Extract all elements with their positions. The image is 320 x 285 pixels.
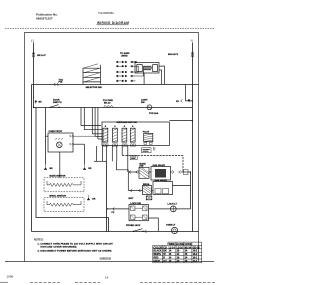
wire bottom left riser [36,108,109,218]
svg-text:SURFACE UNIT SW: SURFACE UNIT SW [117,121,138,124]
svg-text:SWITCH: SWITCH [53,102,62,104]
svg-text:MOT: MOT [129,198,135,200]
wire igniter to valve [149,171,151,173]
svg-text:P3: P3 [112,212,115,214]
svg-text:OVEN TSTAT: OVEN TSTAT [49,130,63,133]
bake gas valve box [151,167,171,181]
thermostat contacts [55,138,63,139]
svg-text:BK: BK [50,168,54,170]
svg-text:GAS VALVE: GAS VALVE [155,179,168,182]
fuse symbol L1 [32,52,35,54]
selector contact row 5 [117,80,136,82]
selector contact row 1 [117,61,137,63]
wire feed row1 [117,161,129,172]
wire tstat down left [59,152,61,178]
svg-text:LOCK LT: LOCK LT [168,203,178,205]
svg-text:SELECTOR SW.: SELECTOR SW. [86,87,103,89]
svg-text:5995371227: 5995371227 [36,16,53,20]
svg-text:UNITS: UNITS [121,55,128,57]
svg-text:IGN: IGN [140,166,144,168]
bottom scan marks [0,281,8,283]
svg-text:2. DISCONNECT POWER BEFORE SE: 2. DISCONNECT POWER BEFORE SERVICING UNI… [38,249,113,252]
wire lock to light [149,208,191,210]
broil igniter row wire [128,190,142,192]
svg-text:TOD 20A: TOD 20A [149,112,159,115]
oven control EOC box [135,63,159,74]
wire riser to bottom bus [108,218,110,232]
probe switch on bottom wire [133,231,134,232]
wire L1 supply [33,43,35,108]
connector P1 on W1 [54,83,59,86]
oven selector switch bank [83,64,101,85]
broil gas valve box [153,182,173,195]
broil element coil [47,203,81,206]
wire W1 top horizontal [32,84,199,86]
svg-text:GY: GY [163,260,167,263]
plug arrow on W2 left [35,100,37,103]
comb wires below surface switch [96,146,98,161]
wire drop left A [81,107,101,125]
diagram border frame [25,33,199,262]
svg-text:NOTES:: NOTES: [34,239,44,242]
svg-text:GRAY: GRAY [153,260,160,263]
connector pair [129,171,138,174]
connector label box A [130,156,137,160]
svg-text:1096: 1096 [7,274,14,278]
door switch on W2 [50,107,51,108]
surface unit switch box [102,122,169,146]
selector contact row 3 [117,66,139,73]
infinite switch 1 [103,126,108,147]
left drop bus [106,162,108,232]
broil element dashed box [44,198,84,212]
wire drop left B [84,107,102,129]
svg-text:PROBE JACK: PROBE JACK [126,224,141,227]
svg-text:OR: OR [88,168,92,170]
wire drops to surface switch [91,107,93,134]
left bus wire [31,85,33,232]
connector label box B [142,148,152,153]
connector on lock row [113,207,115,210]
svg-text:OVEN LT: OVEN LT [166,224,176,226]
wire N supply [192,43,194,232]
svg-text:SW: SW [141,102,145,104]
svg-text:BROIL IGNITOR: BROIL IGNITOR [50,195,67,197]
infinite switch 2 [113,126,118,147]
wire contacts to EOC [143,66,145,76]
footer rule [5,261,214,263]
connector pair [130,189,141,192]
thermostat bulb [57,142,63,148]
svg-text:WIRING DIAGRAM: WIRING DIAGRAM [97,21,129,25]
wire w2 into tstat [45,108,47,165]
wire lock box to bottom [149,218,159,231]
svg-text:BK: BK [39,102,43,104]
svg-text:BROIL: BROIL [143,184,150,186]
header rule [5,27,214,29]
svg-text:BAKE IGNITOR: BAKE IGNITOR [50,175,66,178]
connector on branch [181,99,183,102]
svg-text:BK-14 P: BK-14 P [37,54,46,57]
lock row wire [108,208,130,210]
svg-text:LOCK SW: LOCK SW [131,203,142,205]
svg-text:GAS VALVE: GAS VALVE [153,164,166,167]
selector contact row 4 [117,75,144,77]
wire W2 horizontal [34,107,193,109]
svg-text:N1: N1 [176,101,180,103]
svg-text:HIGH AND COVER GROUNDED.: HIGH AND COVER GROUNDED. [41,246,78,249]
bake igniter [139,167,149,178]
broil igniter [143,186,152,195]
wire tstat down right [84,144,86,165]
connector right of valve [172,171,181,174]
thermostat terminals [70,135,74,137]
wire color table [153,242,202,263]
svg-text:BK-14: BK-14 [104,102,111,105]
connector P2 on W2 [104,105,114,107]
svg-text:L1: L1 [31,39,35,43]
wire EOC to N bus [159,66,164,84]
bake element dashed box [44,178,84,192]
svg-text:OR: OR [92,198,96,200]
svg-text:14: 14 [105,275,109,279]
infinite switch 3 [122,126,127,147]
infinite switch 4 [130,126,135,147]
wire EOC down [143,73,145,84]
broil plug arrow [87,195,90,200]
svg-text:1. CONNECT OVEN FRAME TO 120: 1. CONNECT OVEN FRAME TO 120 VOLT SUPPLY… [38,242,114,245]
wire feed row2 [127,172,129,191]
svg-text:318053110: 318053110 [100,258,112,261]
wire to igniter row [122,156,183,173]
svg-text:P18: P18 [59,82,64,84]
svg-text:14-1: 14-1 [193,260,198,263]
svg-text:WH-14 P2: WH-14 P2 [168,53,179,56]
bake igniter row wire [128,171,139,173]
oven thermostat box [48,133,73,152]
svg-text:TGF362BCBA: TGF362BCBA [98,12,114,15]
fuse symbol N [191,52,194,54]
TOD on W2 [147,105,152,110]
selector contact row 2 [117,65,139,67]
wire TOD junction to N [169,120,192,122]
bake element coil [47,183,81,186]
door lock assembly [129,205,149,221]
wire EOC branch to N [186,84,193,101]
svg-text:N: N [191,39,193,43]
bottom wire [32,231,199,233]
bake plug arrows [44,165,47,170]
